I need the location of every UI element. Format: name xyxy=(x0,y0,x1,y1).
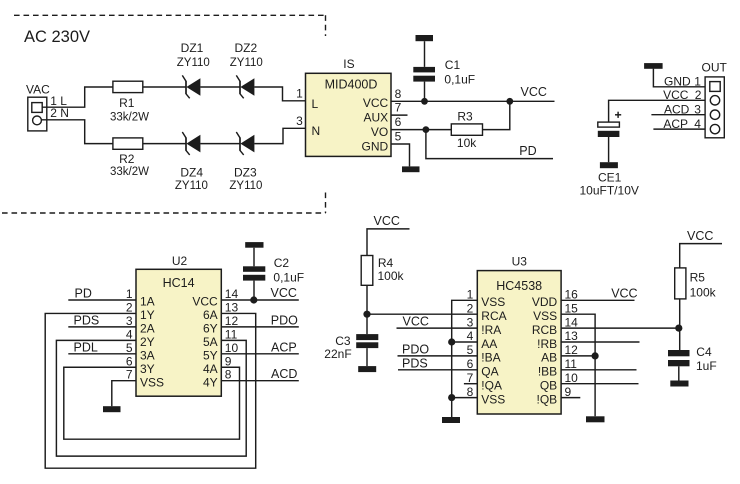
svg-text:L: L xyxy=(312,97,319,111)
connector VAC xyxy=(26,83,69,131)
svg-text:9: 9 xyxy=(565,385,572,399)
ground bar OUT xyxy=(644,63,663,69)
ground bar IS xyxy=(402,166,420,172)
svg-text:11: 11 xyxy=(225,327,238,341)
wire GND1 to ground xyxy=(653,69,705,87)
monostable U3 HC4538 xyxy=(467,254,579,414)
resistor R5 100k xyxy=(675,268,717,300)
svg-text:VSS: VSS xyxy=(533,309,557,323)
svg-text:0,1uF: 0,1uF xyxy=(444,72,475,86)
svg-text:U3: U3 xyxy=(512,254,528,268)
svg-text:C2: C2 xyxy=(274,256,290,270)
svg-text:4: 4 xyxy=(126,327,133,341)
wire PDL to U2 pin5 xyxy=(68,353,136,355)
svg-text:7: 7 xyxy=(126,368,133,382)
svg-text:2: 2 xyxy=(126,301,133,315)
svg-text:PDS: PDS xyxy=(74,314,100,328)
svg-text:IS: IS xyxy=(343,57,354,71)
wire VSS U2 pin7 to ground xyxy=(112,381,136,407)
svg-text:!RA: !RA xyxy=(481,323,501,337)
svg-text:HC14: HC14 xyxy=(163,276,195,290)
wire VCC to R5 xyxy=(680,244,722,268)
svg-text:5Y: 5Y xyxy=(203,348,218,362)
svg-text:VCC: VCC xyxy=(374,214,400,228)
wire R3 to VCC rail xyxy=(483,101,510,129)
resistor R1 xyxy=(110,81,149,123)
zener diode DZ1 ZY110 xyxy=(177,41,210,99)
wire !RB stub U3 pin13 xyxy=(561,341,639,343)
svg-text:4A: 4A xyxy=(203,362,218,376)
svg-text:RCA: RCA xyxy=(481,309,506,323)
svg-text:2Y: 2Y xyxy=(140,335,155,349)
wire loop 1Y to 6A xyxy=(45,313,256,468)
svg-text:1: 1 xyxy=(467,288,474,302)
svg-text:3Y: 3Y xyxy=(140,362,155,376)
zener diode DZ3 ZY110 xyxy=(229,132,262,192)
svg-text:6: 6 xyxy=(126,354,133,368)
svg-text:1: 1 xyxy=(296,87,303,101)
svg-text:10: 10 xyxy=(225,341,239,355)
svg-text:33k/2W: 33k/2W xyxy=(110,166,149,178)
wire RCA to U3 pin2 xyxy=(367,313,477,315)
capacitor CE1 10uFT/10V electrolytic xyxy=(580,112,639,198)
capacitor C1 0,1uF xyxy=(413,41,475,101)
svg-text:DZ3: DZ3 xyxy=(234,165,257,179)
svg-text:9: 9 xyxy=(225,354,232,368)
svg-text:VCC: VCC xyxy=(403,315,429,329)
optocoupler IS MID400D xyxy=(296,57,401,156)
wire AB stub U3 pin12 xyxy=(561,355,595,357)
wire AUX stub pin7 xyxy=(391,114,408,116)
svg-text:U2: U2 xyxy=(172,254,188,268)
wire !QA stub U3 pin7 xyxy=(464,383,477,385)
svg-text:12: 12 xyxy=(565,343,579,357)
svg-text:ZY110: ZY110 xyxy=(230,57,263,69)
junction node C1/VCC xyxy=(421,98,428,105)
svg-text:!BB: !BB xyxy=(538,365,557,379)
svg-text:4Y: 4Y xyxy=(203,375,218,389)
svg-text:!RB: !RB xyxy=(537,337,557,351)
svg-text:PD: PD xyxy=(75,287,92,301)
wire DZ2 to IS pin1 xyxy=(254,87,305,101)
ground bar CE1 xyxy=(600,162,618,168)
svg-text:VSS: VSS xyxy=(140,375,164,389)
svg-text:MID400D: MID400D xyxy=(325,78,378,92)
connector OUT xyxy=(663,61,727,138)
svg-text:7: 7 xyxy=(467,371,474,385)
svg-text:N: N xyxy=(312,124,321,138)
zener diode DZ4 ZY110 xyxy=(175,132,208,192)
svg-text:OUT: OUT xyxy=(702,61,728,75)
wire ACD3 stub xyxy=(651,114,705,116)
capacitor C2 0,1uF xyxy=(243,248,304,300)
wire VCC from U3 pin16 xyxy=(561,299,634,301)
svg-text:!BA: !BA xyxy=(481,351,500,365)
svg-text:VCC: VCC xyxy=(271,286,297,300)
wire PD to U2 pin1 xyxy=(68,299,136,301)
wire PDO to U3 pin5 xyxy=(398,355,478,357)
wire N: VAC pin2 to R2 xyxy=(42,120,113,144)
junction node C2/VCC xyxy=(250,296,257,303)
svg-text:PD: PD xyxy=(519,144,536,158)
svg-text:6: 6 xyxy=(395,115,402,129)
svg-text:QA: QA xyxy=(481,365,498,379)
svg-text:VSS: VSS xyxy=(481,295,505,309)
wire DZ4 to DZ3 xyxy=(200,143,240,145)
svg-text:14: 14 xyxy=(565,315,579,329)
wire VCC to U3 pin3 xyxy=(397,327,478,329)
zener diode DZ2 ZY110 xyxy=(230,41,263,99)
wire !QB stub U3 pin9 xyxy=(561,397,580,399)
svg-text:DZ4: DZ4 xyxy=(180,165,203,179)
wire GND stub IS pin5 xyxy=(391,144,410,166)
svg-text:DZ1: DZ1 xyxy=(181,41,204,55)
svg-text:DZ2: DZ2 xyxy=(234,41,257,55)
ground bar C4 xyxy=(670,381,688,387)
wire ACD from U2 pin8 xyxy=(221,380,298,382)
svg-text:2: 2 xyxy=(467,301,474,315)
wire PD net xyxy=(426,130,553,159)
wire PDO from U2 pin12 xyxy=(221,326,298,328)
svg-text:!QA: !QA xyxy=(481,379,502,393)
svg-text:R2: R2 xyxy=(119,152,135,166)
wire R4 to junction xyxy=(366,285,368,314)
wire DZ3 to IS pin3 xyxy=(254,128,305,143)
svg-text:ZY110: ZY110 xyxy=(229,180,262,192)
svg-text:5: 5 xyxy=(126,341,133,355)
svg-text:HC4538: HC4538 xyxy=(496,279,542,293)
wire QB stub U3 pin10 xyxy=(561,383,638,385)
svg-text:10k: 10k xyxy=(457,136,477,150)
svg-text:1Y: 1Y xyxy=(140,308,155,322)
svg-text:14: 14 xyxy=(225,287,239,301)
junction node R3/VCC xyxy=(506,98,513,105)
svg-text:C4: C4 xyxy=(696,345,712,359)
wire VSS U3 pin15 to ground xyxy=(561,314,595,416)
svg-text:ZY110: ZY110 xyxy=(177,57,210,69)
capacitor C4 1uF xyxy=(668,345,717,380)
wire loop 3Y to 4A xyxy=(64,367,240,439)
svg-text:PDS: PDS xyxy=(402,356,428,370)
ground bar U2 xyxy=(103,406,121,412)
wire PDS to U2 pin3 xyxy=(68,326,136,328)
svg-text:AA: AA xyxy=(481,337,497,351)
svg-text:10: 10 xyxy=(565,371,579,385)
svg-text:ACD: ACD xyxy=(271,367,297,381)
svg-text:3: 3 xyxy=(126,314,133,328)
ground bar above C2 xyxy=(245,242,263,248)
svg-text:RCB: RCB xyxy=(532,323,557,337)
svg-text:PDO: PDO xyxy=(271,313,298,327)
svg-text:VO: VO xyxy=(371,125,388,139)
wire DZ1 to DZ2 xyxy=(200,86,240,88)
svg-text:PDL: PDL xyxy=(74,340,98,354)
svg-text:1uF: 1uF xyxy=(696,359,717,373)
wire R1 to DZ1 xyxy=(143,86,186,88)
wire L: VAC pin1 to R1 xyxy=(42,87,113,107)
svg-text:6A: 6A xyxy=(203,308,218,322)
svg-text:6Y: 6Y xyxy=(203,322,218,336)
svg-text:VCC: VCC xyxy=(687,229,713,243)
svg-text:8: 8 xyxy=(225,368,232,382)
junction node pin8 xyxy=(448,394,455,401)
svg-text:8: 8 xyxy=(395,87,402,101)
junction node R5/C4/RCB xyxy=(675,325,682,332)
wire loop 2Y to 5A xyxy=(56,340,246,456)
svg-text:ACP: ACP xyxy=(271,340,297,354)
svg-text:6: 6 xyxy=(467,357,474,371)
svg-text:VSS: VSS xyxy=(481,392,505,406)
junction node pin12 xyxy=(592,352,599,359)
wire VCC to R4 xyxy=(367,229,410,256)
capacitor C3 22nF xyxy=(324,314,378,366)
svg-text:0,1uF: 0,1uF xyxy=(273,271,304,285)
wire U3 pins 1/4/8 to ground xyxy=(452,300,478,417)
svg-text:2 N: 2 N xyxy=(50,106,69,120)
svg-text:GND: GND xyxy=(362,140,389,154)
svg-text:AC 230V: AC 230V xyxy=(24,28,90,46)
svg-text:R4: R4 xyxy=(378,256,394,270)
svg-text:3A: 3A xyxy=(140,348,155,362)
svg-text:1A: 1A xyxy=(140,295,155,309)
svg-text:R3: R3 xyxy=(457,109,473,123)
svg-text:AB: AB xyxy=(541,351,557,365)
wire ACP4 stub xyxy=(653,128,705,130)
junction node pin4 xyxy=(448,338,455,345)
resistor R2 xyxy=(110,138,149,178)
svg-text:ZY110: ZY110 xyxy=(175,180,208,192)
svg-text:2A: 2A xyxy=(140,322,155,336)
svg-text:AUX: AUX xyxy=(364,111,389,125)
svg-text:13: 13 xyxy=(225,301,239,315)
svg-text:13: 13 xyxy=(565,329,579,343)
svg-text:PDO: PDO xyxy=(402,342,429,356)
svg-text:12: 12 xyxy=(225,314,239,328)
svg-text:R5: R5 xyxy=(690,271,706,285)
svg-text:33k/2W: 33k/2W xyxy=(110,111,149,123)
svg-text:5: 5 xyxy=(467,343,474,357)
svg-text:C1: C1 xyxy=(445,58,461,72)
svg-text:3: 3 xyxy=(467,315,474,329)
junction node VO/PD xyxy=(423,126,430,133)
svg-text:5: 5 xyxy=(395,130,402,144)
svg-text:22nF: 22nF xyxy=(324,347,351,361)
svg-text:5A: 5A xyxy=(203,335,218,349)
svg-text:QB: QB xyxy=(540,379,557,393)
svg-text:8: 8 xyxy=(467,385,474,399)
wire R5 to junction and C4 xyxy=(679,299,681,350)
resistor R4 100k xyxy=(361,256,404,286)
wire !BB stub U3 pin11 xyxy=(561,369,636,371)
ground bar U3 right xyxy=(586,416,605,422)
dashed AC mains boundary box xyxy=(2,15,326,213)
svg-text:100k: 100k xyxy=(378,269,405,283)
svg-text:16: 16 xyxy=(565,288,579,302)
svg-text:4: 4 xyxy=(467,329,474,343)
svg-text:3: 3 xyxy=(296,114,303,128)
svg-text:100k: 100k xyxy=(690,286,717,300)
svg-text:VCC: VCC xyxy=(521,85,547,99)
svg-text:VCC: VCC xyxy=(192,295,218,309)
svg-text:1: 1 xyxy=(126,287,133,301)
svg-text:7: 7 xyxy=(395,101,402,115)
junction node R4/C3/RCA xyxy=(363,311,370,318)
ground bar C3 xyxy=(358,366,376,372)
resistor R3 10k xyxy=(451,109,482,150)
svg-text:R1: R1 xyxy=(119,96,135,110)
wire VCC2 to CE1 xyxy=(609,100,706,122)
wire PDS to U3 pin6 xyxy=(398,369,477,371)
svg-text:C3: C3 xyxy=(335,334,351,348)
svg-text:VCC: VCC xyxy=(611,286,637,300)
svg-text:15: 15 xyxy=(565,301,579,315)
hex inverter U2 HC14 xyxy=(126,254,239,396)
svg-text:VAC: VAC xyxy=(26,83,50,97)
wire VCC from U2 pin14 xyxy=(221,299,298,301)
svg-text:CE1: CE1 xyxy=(598,171,622,185)
ground bar U3 left xyxy=(442,417,460,423)
wire ACP from U2 pin10 xyxy=(221,353,298,355)
wire R2 to DZ4 xyxy=(143,143,186,145)
wire VCC rail from IS pin8 xyxy=(391,100,555,102)
svg-text:!QB: !QB xyxy=(537,392,558,406)
svg-text:11: 11 xyxy=(565,357,578,371)
svg-text:VCC: VCC xyxy=(363,96,389,110)
wire VO from IS pin6 xyxy=(391,129,451,131)
ground bar above C1 xyxy=(416,35,434,41)
wire RCB U3 pin14 to R5/C4 xyxy=(561,327,679,329)
svg-text:10uFT/10V: 10uFT/10V xyxy=(580,184,639,198)
svg-text:VDD: VDD xyxy=(532,295,558,309)
